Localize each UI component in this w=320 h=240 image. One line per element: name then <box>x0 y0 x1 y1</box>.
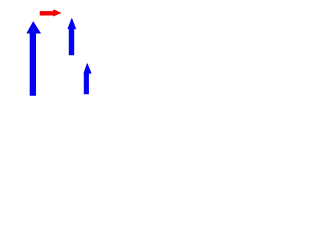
vector arrow v (red horizontal arrow, points right) <box>40 10 61 16</box>
vector arrow B1 (left, large blue up-arrow) <box>27 22 41 96</box>
vector arrow B2 (middle blue up-arrow) <box>68 18 76 55</box>
vector arrow B3 (right, short blue up-arrow) <box>84 64 91 95</box>
background <box>0 0 120 108</box>
